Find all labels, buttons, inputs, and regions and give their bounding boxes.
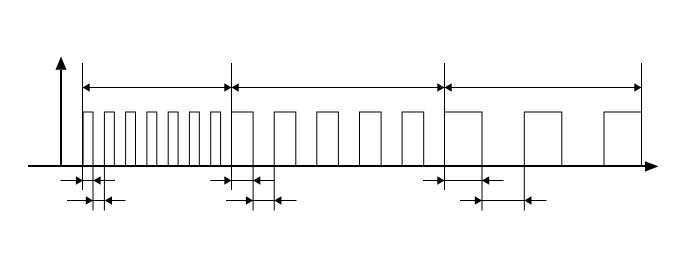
section 1 low-time dimension row 2 — [67, 196, 126, 204]
dimension line span 3 — [445, 83, 642, 91]
section 3 pulse-width dimension row 1 — [423, 176, 504, 184]
extension line B2 — [444, 63, 446, 190]
x-axis — [28, 161, 659, 171]
section 3 falling-edge extension below axis — [481, 166, 483, 211]
extension line B3 — [641, 63, 643, 166]
extension line B0 — [82, 63, 84, 190]
waveform section 2 pulses — [232, 112, 424, 166]
section 1 pulse-width dimension row 1 — [61, 176, 116, 184]
section 2 second-rising-edge extension below axis — [273, 166, 275, 211]
section 2 pulse-width dimension row 1 — [210, 176, 274, 184]
extension line B1 — [231, 63, 233, 190]
dimension line span 2 — [232, 83, 445, 91]
section 3 low-time dimension row 2 — [460, 196, 547, 204]
waveform section 1 pulses — [83, 112, 221, 166]
section 1 second-rising-edge extension below axis — [103, 166, 105, 211]
section 2 falling-edge extension below axis — [252, 166, 254, 211]
dimension line span 1 — [83, 83, 232, 91]
waveform section 3 pulses — [445, 112, 642, 166]
section 2 low-time dimension row 2 — [226, 196, 297, 204]
section 1 falling-edge extension below axis — [92, 166, 94, 211]
section 3 second-rising-edge extension below axis — [523, 166, 525, 211]
y-axis — [56, 57, 67, 167]
